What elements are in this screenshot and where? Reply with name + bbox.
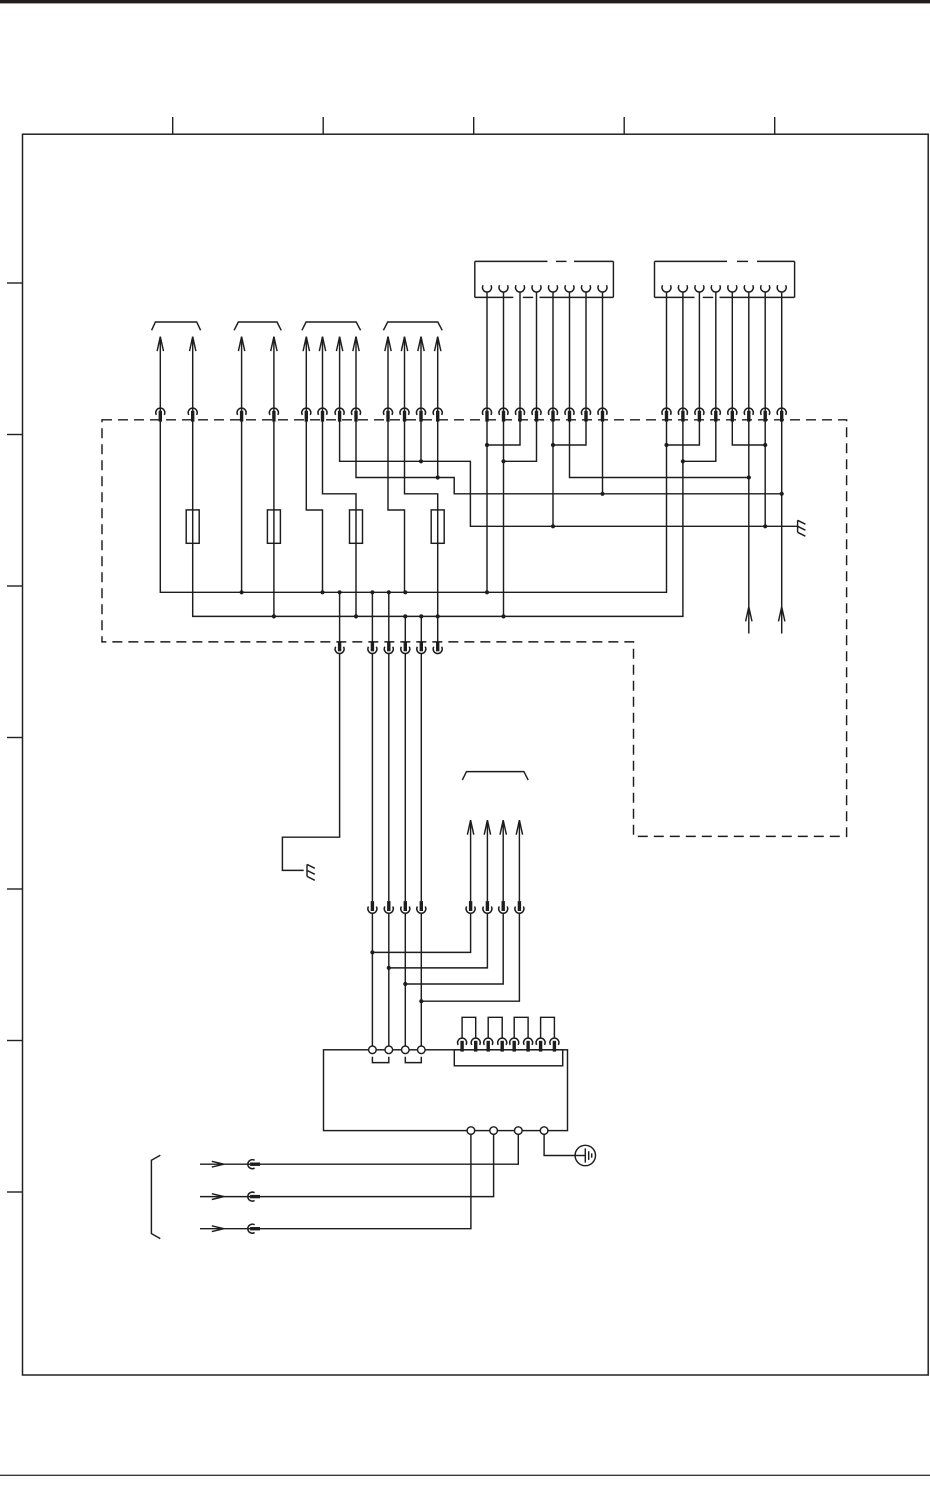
wire: group lead 3 to harness (up arrow) <box>238 337 244 412</box>
pin: enclosure top entry 11 <box>417 408 426 421</box>
wire: group lead 12 to harness (up arrow) <box>435 337 441 412</box>
link jumper L2 <box>488 1017 502 1038</box>
pin: enclosure top entry 5 <box>302 408 311 421</box>
junction dot <box>419 614 423 618</box>
pin: link L1 right leg <box>471 1038 480 1051</box>
wire: J1-2 drop to bus H2 <box>503 420 505 617</box>
junction dot <box>747 475 751 479</box>
junction dot <box>681 459 685 463</box>
wire: J2-5 lead down <box>731 292 733 411</box>
ground: chassis ground (left) <box>307 864 315 880</box>
wire: J1-4 lead down <box>536 292 538 411</box>
pin: enclosure top entry 7 <box>335 408 344 421</box>
junction dot <box>387 590 391 594</box>
junction box (lower unit) <box>324 1050 568 1131</box>
pin: enclosure top entry 14 <box>499 408 508 421</box>
pin: enclosure top entry 18 <box>565 408 574 421</box>
pin: enclosure bottom exit 3 <box>384 641 393 653</box>
junction dot <box>387 966 391 970</box>
wire: terminal 4 to body ground point <box>544 1134 575 1155</box>
pin: link L2 left leg <box>484 1038 493 1051</box>
wire: lead4 drop through fuse F2 to bus H2 <box>273 420 275 617</box>
wire: J1-3 to level A joining J1-1 <box>487 420 520 445</box>
terminal circle (top) 2 <box>385 1046 393 1054</box>
fuse F4 <box>431 510 444 543</box>
pin: enclosure top entry 27 <box>761 408 770 421</box>
pin: enclosure top entry 26 <box>744 408 753 421</box>
pin: enclosure top entry 24 <box>711 408 720 421</box>
pin: link L4 right leg <box>550 1038 559 1051</box>
pin J1-3 contact <box>516 285 525 292</box>
junction dot <box>763 443 767 447</box>
pin: enclosure top entry 6 <box>318 408 327 421</box>
harness bracket (bottom left) <box>151 1155 160 1238</box>
connector J2 (8-way, top) <box>655 261 795 297</box>
junction box inner terminal strip <box>454 1050 562 1066</box>
pin: enclosure top entry 9 <box>384 408 393 421</box>
dashed enclosure: fuse/relay junction block boundary <box>102 420 847 837</box>
wire: output 3 to left harness <box>200 1134 471 1233</box>
junction dot <box>436 614 440 618</box>
wire: J1-5 lead down <box>552 292 554 411</box>
wire: J2-3 to level A joining J2-1 <box>667 420 700 445</box>
pin: enclosure top entry 4 <box>269 408 278 421</box>
pin: enclosure top entry 19 <box>582 408 591 421</box>
pin: enclosure bottom exit 5 <box>417 641 426 653</box>
pin: enclosure top entry 13 <box>483 408 492 421</box>
wire: lead9 jog to bus H1 <box>388 420 405 593</box>
junction dot <box>354 614 358 618</box>
wire: J2-5 to level A joining J2-7 <box>732 420 765 445</box>
wire: J2-1 lead down <box>666 292 668 411</box>
fuse F1 <box>186 510 199 543</box>
pin J1-7 contact <box>582 285 591 292</box>
harness group brace 1 <box>152 322 201 330</box>
junction dot <box>370 950 374 954</box>
wire: group lead 2 to harness (up arrow) <box>190 337 196 412</box>
junction dot <box>403 614 407 618</box>
pin: link L3 left leg <box>510 1038 519 1051</box>
junction dot <box>403 982 407 986</box>
wire: group lead 7 to harness (up arrow) <box>336 337 342 412</box>
junction dot <box>338 590 342 594</box>
pin: mid-harness inline connector 1 <box>368 901 377 913</box>
fuse F2 <box>267 510 280 543</box>
harness group brace 5 (mid page) <box>462 772 528 781</box>
wire: net H2 feed (lead2 - fuse F1 - bus H2 - J2-2 riser) <box>193 420 683 617</box>
wire: J2-3 lead down <box>698 292 700 411</box>
pin J2-2 contact <box>678 285 687 292</box>
wire: exit 1 run to left chassis ground <box>282 592 339 870</box>
wire: feed 2 down to junction box circle terminal <box>388 592 390 1046</box>
wire: J1-4 to level B joining J1-2 <box>504 420 537 462</box>
pin: enclosure top entry 1 <box>156 408 165 421</box>
junction dot <box>436 475 440 479</box>
wire: lead12 drop to level C <box>437 420 439 478</box>
pin: enclosure top entry 8 <box>352 408 361 421</box>
junction dot <box>419 459 423 463</box>
pin: enclosure top entry 20 <box>598 408 607 421</box>
wire: J2-2 lead down <box>682 292 684 411</box>
pin: link L2 right leg <box>498 1038 507 1051</box>
junction dot <box>501 459 505 463</box>
arrow: J2-8 destination (off sheet) <box>779 607 785 622</box>
wire: lead7 to ground bus (level B then F) <box>340 420 798 527</box>
pin: enclosure top entry 17 <box>549 408 558 421</box>
connector J1 (8-way, top) <box>475 261 614 297</box>
pin J1-5 contact <box>549 285 558 292</box>
wire: lead5 jog to bus H1 <box>306 420 322 593</box>
pin: mid-harness inline connector 3 <box>401 901 410 913</box>
pin J2-7 contact <box>761 285 770 292</box>
pin: enclosure top entry 28 <box>777 408 786 421</box>
wire: feed 3 down to junction box circle terminal <box>404 616 406 1046</box>
junction dot <box>403 590 407 594</box>
pin: enclosure bottom exit 2 <box>368 641 377 653</box>
junction dot <box>370 590 374 594</box>
wire: output 2 to left harness <box>200 1134 494 1201</box>
wire: J2-4 lead down <box>715 292 717 411</box>
junction dot <box>501 614 505 618</box>
wire: J2-8 drop to sheet arrow <box>781 420 783 634</box>
junction dot <box>419 999 423 1003</box>
wire: J1-1 lead down <box>486 292 488 411</box>
wire: J1-3 lead down <box>519 292 521 411</box>
wire: J2-7 drop to ground bus <box>764 420 766 527</box>
pin: enclosure top entry 10 <box>400 408 409 421</box>
pin: enclosure top entry 23 <box>695 408 704 421</box>
terminal circle (bottom) 4 <box>540 1127 548 1135</box>
junction dot <box>485 443 489 447</box>
pin: mid-harness inline connector 7 <box>499 901 508 913</box>
wire: group lead 11 to harness (up arrow) <box>418 337 424 412</box>
wire: group lead 4 to harness (up arrow) <box>271 337 277 412</box>
wire: J1-7 lead down <box>585 292 587 411</box>
pin J2-1 contact <box>662 285 671 292</box>
wire: lead11 drop to level B <box>420 420 422 462</box>
pin J1-2 contact <box>499 285 508 292</box>
wire: group lead 1 to harness (up arrow) <box>157 337 163 412</box>
pin: mid-harness inline connector 6 <box>483 901 492 913</box>
wire: branch 2 to harness riser (up arrow) <box>389 820 491 968</box>
terminal circle (top) 1 <box>369 1046 377 1054</box>
ground: chassis ground (right, on ground bus) <box>798 520 806 536</box>
wire: feed 4 down to junction box circle terminal <box>420 616 422 1046</box>
wire: group lead 5 to harness (up arrow) <box>303 337 309 412</box>
arrow: J2-6 destination (off sheet) <box>746 607 752 622</box>
wire: group lead 6 to harness (up arrow) <box>319 337 325 412</box>
wire: J2-8 lead down <box>781 292 783 411</box>
wire: feed 1 down to junction box circle terminal <box>371 592 373 1046</box>
terminal circle (bottom) 2 <box>490 1127 498 1135</box>
wire: branch 4 to harness riser (up arrow) <box>421 820 522 1001</box>
terminal circle (bottom) 1 <box>467 1127 475 1135</box>
pin: link L3 right leg <box>524 1038 533 1051</box>
pin J1-1 contact <box>483 285 492 292</box>
wire: group lead 10 to harness (up arrow) <box>401 337 407 412</box>
pin: enclosure top entry 2 <box>188 408 197 421</box>
pairing bracket 1 <box>372 1057 388 1063</box>
pin J1-6 contact <box>565 285 574 292</box>
pin: enclosure bottom exit 4 <box>401 641 410 653</box>
pin: link L4 left leg <box>536 1038 545 1051</box>
wire: branch 1 to harness riser (up arrow) <box>372 820 473 952</box>
pin: enclosure top entry 21 <box>662 408 671 421</box>
pin J2-5 contact <box>728 285 737 292</box>
link jumper L4 <box>541 1017 555 1038</box>
junction dot <box>551 443 555 447</box>
wire: net H1 feed (lead1 - bus H1 - J2-1 riser) <box>160 420 666 593</box>
pin J2-3 contact <box>695 285 704 292</box>
pin J1-8 contact <box>598 285 607 292</box>
pin J1-4 contact <box>532 285 541 292</box>
wire: lead3 drop to bus H1 <box>241 420 243 593</box>
pin J2-8 contact <box>777 285 786 292</box>
wire: J1-1 drop to bus H1 <box>486 420 488 593</box>
harness group brace 3 <box>302 322 361 330</box>
harness group brace 2 <box>234 322 281 330</box>
harness group brace 4 <box>383 322 442 330</box>
junction dot <box>780 492 784 496</box>
link jumper L1 <box>462 1017 476 1038</box>
wire: group lead 9 to harness (up arrow) <box>385 337 391 412</box>
pin J2-4 contact <box>711 285 720 292</box>
terminal circle (top) 4 <box>418 1046 426 1054</box>
ground: body ground point (circle) <box>575 1145 595 1165</box>
wire: lead6 jog through fuse F3 to bus H2 <box>323 420 357 617</box>
wire: output 1 to left harness <box>200 1134 518 1168</box>
junction dot <box>600 492 604 496</box>
wire: J1-8 lead down <box>602 292 604 411</box>
wire: J1-6 lead down <box>569 292 571 411</box>
wire: J1-5 drop to ground bus <box>552 420 554 527</box>
wire: J1-6 along level C to J2-6 <box>570 420 749 478</box>
pin: enclosure top entry 22 <box>678 408 687 421</box>
pin J2-6 contact <box>744 285 753 292</box>
junction dot <box>320 590 324 594</box>
wire: branch 3 to harness riser (up arrow) <box>405 820 506 984</box>
link jumper L3 <box>514 1017 528 1038</box>
pin: enclosure bottom exit 1 <box>335 641 344 653</box>
pin: mid-harness inline connector 2 <box>384 901 393 913</box>
junction dot <box>240 590 244 594</box>
wire: J2-6 drop to sheet arrow <box>748 420 750 634</box>
pairing bracket 2 <box>405 1057 421 1063</box>
wire: J2-7 lead down <box>764 292 766 411</box>
fuse F3 <box>350 510 363 543</box>
pin: enclosure bottom exit 6 <box>433 641 442 653</box>
junction dot <box>551 524 555 528</box>
junction dot <box>485 590 489 594</box>
pin: enclosure top entry 25 <box>728 408 737 421</box>
wire: lead10 jog through fuse F4, stub out of enclosure <box>405 420 438 642</box>
terminal circle (bottom) 3 <box>515 1127 523 1135</box>
wire: group lead 8 to harness (up arrow) <box>353 337 359 412</box>
wire: J1-8 drop to level D <box>602 420 604 494</box>
wire: J2-4 to level B joining J2-2 <box>683 420 716 462</box>
junction dot <box>664 443 668 447</box>
junction dot <box>272 614 276 618</box>
pin: enclosure top entry 12 <box>433 408 442 421</box>
wire: lead8 to bus level D <box>356 420 782 494</box>
wire: J2-6 lead down <box>748 292 750 411</box>
terminal circle (top) 3 <box>402 1046 410 1054</box>
pin: mid-harness inline connector 8 <box>515 901 524 913</box>
wire: J1-2 lead down <box>503 292 505 411</box>
pin: mid-harness inline connector 5 <box>466 901 475 913</box>
pin: link L1 left leg <box>458 1038 467 1051</box>
junction dot <box>763 524 767 528</box>
pin: enclosure top entry 3 <box>237 408 246 421</box>
pin: enclosure top entry 15 <box>516 408 525 421</box>
pin: enclosure top entry 16 <box>532 408 541 421</box>
wire: J1-7 to level A joining J1-5 <box>553 420 586 445</box>
pin: mid-harness inline connector 4 <box>417 901 426 913</box>
